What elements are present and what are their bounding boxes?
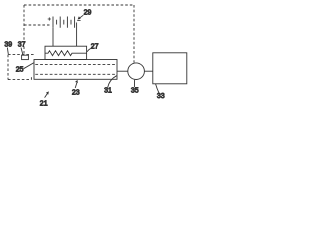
- leader line from label 39 to mouthpiece box: [6, 48, 9, 54]
- dashed wire branch to battery positive terminal: [24, 24, 50, 26]
- tube inner wall upper dashed: [35, 64, 116, 66]
- leader line from label 37 to sensor: [21, 48, 23, 55]
- mouthpiece dashed box 39 top edge: [8, 54, 34, 56]
- dashed control-circuit box left edge: [23, 5, 25, 55]
- svg-text:27: 27: [91, 43, 99, 50]
- tube inner wall lower dashed: [35, 73, 116, 75]
- pointer arrow 21: [45, 94, 48, 98]
- battery 29 cell plates: [53, 17, 75, 28]
- svg-text:23: 23: [72, 89, 80, 96]
- svg-text:39: 39: [4, 41, 12, 48]
- svg-text:29: 29: [84, 10, 92, 17]
- mouthpiece dashed box 39 bottom edge: [8, 79, 31, 81]
- mouthpiece dashed box 39 end tick: [30, 77, 32, 79]
- pump circle 35: [128, 63, 145, 80]
- tube housing 23 outer rectangle: [34, 60, 117, 80]
- svg-text:21: 21: [40, 101, 48, 108]
- wire battery left terminal down to heater: [52, 28, 54, 47]
- svg-text:25: 25: [16, 66, 24, 73]
- battery 29 minus sign: [77, 20, 80, 22]
- svg-text:35: 35: [131, 87, 139, 94]
- wire tube to pump: [117, 70, 128, 72]
- wire pump to box 33: [144, 70, 152, 72]
- leader line from label 31 to tube outlet junction: [108, 76, 117, 88]
- leader arrow from label 23 to tube bottom: [75, 83, 77, 88]
- dashed control-circuit box right edge: [133, 5, 135, 63]
- leader line from label 35 to pump: [133, 80, 135, 87]
- heater resistor zigzag: [45, 51, 87, 56]
- mouthpiece dashed box 39 left edge: [7, 55, 9, 80]
- box 33: [153, 53, 187, 84]
- leader line from label 33 to box: [156, 84, 159, 93]
- leader line from label 25 to tube left end: [24, 63, 34, 69]
- leader arrow from label 29 to battery: [79, 15, 83, 18]
- leader line from label 27 to heater box: [87, 48, 91, 51]
- heater box U27: [45, 46, 87, 59]
- svg-text:37: 37: [18, 41, 26, 48]
- svg-text:33: 33: [157, 93, 165, 100]
- sensor rectangle 37: [22, 55, 29, 59]
- dashed control-circuit box top edge: [24, 4, 134, 6]
- battery 29 plus sign: [48, 17, 51, 20]
- svg-text:31: 31: [104, 88, 112, 95]
- wire battery right terminal down to heater: [76, 23, 78, 47]
